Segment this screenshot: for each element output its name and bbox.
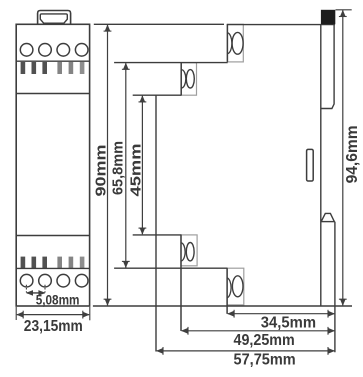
side view: DIN clip black square: [321, 10, 335, 24]
side view: screw ellipses top small housing: [181, 70, 194, 88]
side view: upper rail tongue outer edge with chamfer: [321, 24, 334, 108]
side view: step2 bottom edge: [133, 94, 182, 96]
dimension 94,6mm: [342, 10, 344, 305]
front view: top clip tab outer: [38, 11, 71, 25]
front view: line under top circles: [16, 60, 89, 62]
svg-text:5,08mm: 5,08mm: [36, 291, 80, 307]
svg-text:94,6mm: 94,6mm: [344, 125, 361, 183]
svg-text:49,25mm: 49,25mm: [234, 332, 295, 349]
svg-text:90mm: 90mm: [94, 145, 110, 197]
side view: top small screw housing box: [181, 63, 196, 96]
front view: top terminal slots: [21, 62, 85, 74]
svg-text:65,8mm: 65,8mm: [111, 141, 127, 195]
side view: bottom small housing dark left edge + 49,25 extension: [180, 235, 182, 331]
front view: top terminal screw circles: [20, 44, 88, 57]
front view: top clip tab inner: [40, 14, 67, 23]
side view: bottom big screw housing box: [227, 268, 244, 305]
side view: screw ellipses bottom big housing: [227, 276, 243, 298]
side view: rear face vertical: [320, 24, 322, 306]
side view: bottom big housing dark left edge + 34,5 extension: [226, 268, 228, 314]
front view: line over bottom circles: [16, 267, 89, 269]
side view: bottom edge with right extension: [93, 305, 352, 307]
side view: top big screw housing box: [227, 24, 243, 62]
front view: upper divider line: [16, 93, 89, 95]
svg-text:34,5mm: 34,5mm: [261, 314, 316, 331]
side view: top edge (left segment, gap before big housing): [94, 23, 224, 25]
dimension 5,08mm: [25, 285, 27, 293]
svg-text:57,75mm: 57,75mm: [234, 352, 296, 369]
side view: lower clip right edge + depth dims extension: [334, 222, 336, 353]
dimension 45mm: [141, 96, 143, 235]
side view: top big housing dark left edge: [226, 24, 228, 62]
front view: lower divider line: [16, 235, 89, 237]
side view: top edge (right segment to rear): [227, 24, 335, 26]
side view: lower spring clip pointed tab: [321, 213, 334, 221]
side view: top small housing dark left edge: [180, 63, 182, 96]
side view: bottom small screw housing box: [181, 235, 197, 266]
front view: body outline: [16, 24, 89, 306]
svg-text:45mm: 45mm: [128, 144, 144, 197]
dimension 23,15mm: [15, 307, 17, 320]
dimension 49,25mm: [182, 330, 335, 332]
side view: small slot on rear face: [307, 149, 314, 181]
front view: bottom terminal slots: [21, 257, 85, 268]
side view: front face vertical + 57,75 extension: [155, 95, 157, 351]
svg-text:23,15mm: 23,15mm: [24, 318, 83, 335]
dimension 65,8mm: [125, 63, 127, 267]
dimension 90mm: [107, 25, 109, 305]
dimension 57,75mm: [157, 350, 335, 352]
side view: bottom step2 top edge: [133, 234, 182, 236]
side view: screw ellipses top big housing: [228, 32, 244, 54]
side view: bottom step1 top edge: [114, 267, 227, 269]
dimension 34,5mm: [228, 313, 335, 315]
side view: step1 bottom edge: [114, 62, 228, 64]
front view: bottom terminal screw circles: [20, 274, 88, 287]
side view: screw ellipses bottom small housing: [181, 243, 194, 262]
